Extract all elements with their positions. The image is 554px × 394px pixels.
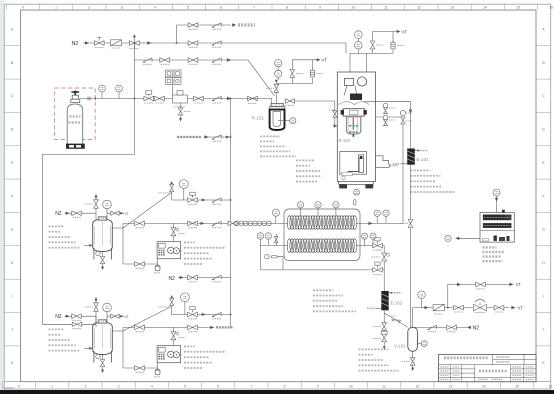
CWR outlet E-102 — [389, 292, 391, 294]
svg-text:R-102: R-102 — [339, 138, 351, 143]
R-102 stirrer motor — [357, 77, 366, 86]
left row letters A-K — [11, 28, 14, 366]
relief valve PSV-103 — [310, 70, 314, 77]
right row letters A-K — [542, 28, 545, 366]
CWS inlet E-102 — [367, 307, 375, 309]
spec text block R-101 — [260, 135, 280, 137]
wire heater signal left — [460, 237, 481, 239]
mass flow controller MFC-301 — [173, 95, 188, 103]
title block company name — [444, 356, 488, 359]
instrument TI row1 outlet b — [383, 210, 389, 216]
valve HV-104 — [285, 100, 335, 102]
node trunk top — [230, 98, 232, 100]
wire tank side nozzle V-401 — [112, 227, 123, 229]
valve KV-103 — [290, 70, 295, 78]
arrow VT R-101 — [317, 58, 321, 61]
valve pair at R-102 inlet — [333, 111, 337, 117]
valve HV-1013 — [382, 323, 387, 330]
check valve CK-301 — [212, 96, 221, 100]
bottom dark strip — [0, 390, 554, 394]
svg-text:N2: N2 — [169, 276, 176, 282]
valve stack right of R-102 b — [384, 119, 388, 125]
relief valve PSV-402 V-501 — [95, 312, 97, 326]
valve HV-1012 — [410, 358, 415, 365]
wire N2 header left x42.3 — [41, 154, 43, 324]
svg-text:13: 13 — [450, 6, 454, 10]
check valve CK-205 — [212, 23, 221, 27]
tank legs V-501 — [94, 351, 112, 363]
wire diagonal to PV-501 — [123, 306, 172, 331]
arrow after AV-508 — [202, 313, 206, 316]
CWS inlet E-101 — [393, 163, 401, 165]
arrow after regulator — [147, 41, 151, 44]
arrow into R-102 — [369, 115, 373, 118]
reactor R-102 vessel — [347, 117, 361, 134]
wire drop x134.5 — [133, 43, 135, 99]
top ruler ticks — [6, 4, 537, 10]
valve HV-101 — [248, 96, 258, 101]
jacket inlet arrow V-501 — [84, 347, 93, 349]
valve HV-108 — [408, 220, 413, 228]
pump P-501 spec text — [184, 345, 195, 347]
valve AV-205b — [188, 275, 198, 280]
node pcv junction — [447, 307, 449, 309]
svg-text:9: 9 — [319, 6, 321, 10]
valve HV-202 on station header — [188, 41, 198, 46]
valve KV-105 — [370, 41, 375, 49]
wire N2 purge y277.5 — [178, 277, 231, 279]
valve HV-502 on N2 header — [72, 322, 82, 326]
svg-text:1: 1 — [55, 6, 57, 10]
heater cabinet — [480, 213, 514, 243]
wire diagonal to R-101 — [248, 60, 275, 96]
bottom ruler numbers 0-16 — [18, 385, 552, 389]
spec text block R-102 — [296, 159, 314, 161]
title block right cells — [513, 366, 522, 368]
thermowell furnace top — [354, 200, 356, 205]
title block gridlines — [439, 354, 537, 381]
wire V-101 bottom drain — [412, 351, 414, 368]
svg-text:14: 14 — [483, 6, 487, 10]
wire R-102 overhead to E-101 — [364, 102, 411, 149]
top ruler numbers 0-16 — [22, 6, 553, 10]
valve HV-405 — [494, 305, 504, 310]
level instrument R-101 — [278, 120, 290, 122]
svg-text:N2: N2 — [72, 41, 79, 47]
wire N2 header top y154.4 — [42, 153, 134, 155]
valve AV-1011 — [373, 268, 383, 273]
instrument TI-313 furnace top — [333, 202, 339, 208]
instrument TI heater left — [445, 235, 451, 241]
spec text block E-101 — [411, 169, 431, 171]
svg-text:VT: VT — [125, 212, 129, 216]
R-102 base and feet — [339, 181, 374, 184]
arrow from BV-6010 — [205, 135, 209, 138]
svg-text:VT: VT — [322, 58, 328, 63]
storage tank V-501 — [93, 322, 113, 354]
instrument PI-A01 — [99, 85, 106, 92]
valve HV-403 V-401 — [72, 211, 81, 216]
valve stack on riser x403 — [401, 117, 405, 124]
arrow to nitrogen seal — [232, 23, 236, 26]
wire N2 header drop x134.4 extension — [133, 99, 135, 155]
valve AV-102 on riser — [274, 84, 279, 92]
label CWS bracket — [390, 165, 398, 167]
instrument TI-312 furnace top — [315, 202, 321, 208]
CWR outlet E-101 — [415, 150, 418, 152]
svg-text:VT: VT — [402, 29, 408, 34]
svg-text:13: 13 — [449, 385, 453, 389]
svg-text:0: 0 — [18, 385, 20, 389]
wire riser x176.5 — [176, 25, 178, 43]
wire tank side nozzle V-501 — [112, 330, 123, 332]
instrument TI row2 outlet b — [370, 233, 376, 239]
instrument below R-102 frame — [354, 189, 360, 195]
bottom ruler band — [4, 381, 551, 383]
condenser E-102 — [381, 291, 388, 310]
union fittings — [88, 97, 95, 101]
gas cylinder body — [67, 104, 83, 147]
svg-text:F: F — [11, 194, 13, 198]
instrument PI-402 — [179, 180, 188, 189]
wire feed header y223.4 — [123, 222, 288, 224]
arrow into trunk — [226, 136, 230, 139]
wire row2 drop x260.4 — [259, 245, 261, 270]
arrow after AV-408 — [202, 198, 206, 201]
svg-text:8: 8 — [286, 6, 288, 10]
arrow N2 inlet — [85, 41, 89, 44]
wire pump suction y264 — [123, 259, 158, 264]
svg-text:VT: VT — [516, 282, 522, 287]
svg-text:11: 11 — [382, 385, 386, 389]
svg-text:N2: N2 — [473, 326, 480, 332]
instrument TI preheater — [272, 209, 279, 216]
valve AV-507 — [135, 366, 145, 371]
wire AV-1011 header y269.9 — [260, 269, 384, 271]
wire pump P-501 suction y368 — [123, 363, 158, 368]
svg-text:I: I — [543, 294, 544, 298]
svg-text:6: 6 — [220, 6, 222, 10]
svg-text:7: 7 — [253, 6, 255, 10]
wire relief header R-101 — [276, 78, 312, 84]
wire VT header R-101 — [292, 60, 317, 70]
instrument TI row1 outlet a — [374, 210, 380, 216]
R-102 outlet bracket — [376, 156, 390, 168]
valve HV-302 drain — [180, 103, 182, 108]
instrument TI-102 top — [355, 31, 363, 39]
svg-text:E-102: E-102 — [391, 301, 403, 306]
arrow feed header — [201, 222, 205, 225]
svg-text:2: 2 — [88, 6, 90, 10]
svg-text:J: J — [11, 328, 13, 332]
tank legs V-401 — [94, 248, 112, 260]
instrument TI row2 outlet a — [362, 233, 368, 239]
wire preheater inlet — [231, 222, 289, 224]
svg-text:VT: VT — [125, 315, 129, 319]
wire tank V-501 suction drop — [122, 327, 124, 368]
vessel R-101 inner — [273, 112, 281, 127]
label butadiene customer-supplied — [70, 115, 81, 117]
svg-text:6: 6 — [217, 385, 219, 389]
tank drain V-501 — [96, 354, 100, 358]
instrument pair row2 inlet — [257, 233, 263, 239]
title block frame — [439, 354, 537, 381]
arrow purge line — [227, 58, 231, 61]
instrument TI-311 furnace top — [297, 202, 303, 208]
wire discharge header y200 — [172, 199, 231, 201]
wire feed header y327.4 — [123, 326, 214, 328]
svg-text:16: 16 — [548, 385, 552, 389]
svg-text:J: J — [543, 328, 545, 332]
small valve row2 inlet — [275, 234, 277, 245]
arrow upper vt — [457, 283, 461, 286]
ignitor circle furnace — [265, 255, 269, 259]
label nitrogen seal gas — [238, 23, 255, 26]
svg-text:4: 4 — [151, 385, 153, 389]
wire PCV row y307.6 — [413, 307, 510, 309]
valve HV-408 — [228, 221, 237, 226]
instrument PI-101 — [275, 70, 282, 77]
wire diagonal to PV-401 — [123, 192, 172, 228]
jacket inlet arrow V-401 — [84, 244, 93, 246]
valve stack right of R-102 a — [384, 107, 388, 113]
relief valve PSV-102 — [391, 42, 395, 49]
arrow VT upper — [509, 283, 513, 287]
svg-text:0: 0 — [22, 6, 24, 10]
svg-text:7: 7 — [250, 385, 252, 389]
node trunk y200 — [230, 199, 232, 201]
wire purge line y60 — [134, 59, 248, 61]
wire N2 station y43 — [83, 42, 346, 44]
reactor coil teal marks — [349, 126, 358, 132]
svg-text:E-101: E-101 — [417, 157, 430, 162]
R-102 control cabinet — [340, 152, 367, 175]
arrow down to E-101 — [409, 110, 412, 114]
svg-text:14: 14 — [482, 385, 486, 389]
separator V-101 — [408, 327, 418, 351]
title block scale row — [478, 378, 488, 380]
wire N2 header bottom feed y324.3 — [42, 323, 96, 325]
bottom ruler ticks — [2, 382, 533, 389]
arrow pcv row — [425, 306, 429, 309]
node trunk y314.5 — [230, 314, 232, 316]
heater coil row 1 — [287, 216, 357, 230]
vessel R-101 jacket — [270, 110, 285, 130]
spec text block V-101 — [359, 348, 389, 350]
valve to VT V-401 — [107, 212, 124, 214]
valve to VT V-501 — [107, 315, 124, 317]
wire discharge header y314.5 — [172, 314, 231, 316]
check valve CK-502 — [212, 135, 221, 139]
svg-text:12: 12 — [417, 6, 421, 10]
pump P-401 spec text — [184, 241, 195, 243]
arrow vent down — [275, 80, 278, 83]
valve KV-508 pump riser — [173, 327, 175, 345]
reactor bottom nozzle — [353, 134, 355, 137]
label TO CK-502 — [216, 326, 233, 328]
svg-text:N2: N2 — [55, 211, 62, 217]
svg-text:F: F — [542, 194, 544, 198]
wire R-102 relief header — [345, 43, 347, 53]
spec text block V-401 — [49, 225, 65, 227]
instrument TI heater — [493, 189, 500, 196]
svg-text:9: 9 — [317, 385, 319, 389]
svg-text:5: 5 — [184, 385, 186, 389]
instrument PI gauge V-401 — [103, 200, 112, 209]
svg-text:16: 16 — [549, 6, 553, 10]
node trunk BV6010 — [230, 136, 232, 138]
wire row2 outlet — [356, 246, 384, 291]
valve PV-501 backpressure — [170, 299, 174, 306]
R-102 skid frame — [337, 72, 375, 181]
node main line x134.5 — [134, 98, 136, 100]
condenser E-101 — [407, 149, 415, 165]
cylinder valve and regulator — [72, 91, 80, 96]
svg-text:R-101: R-101 — [252, 116, 265, 121]
check valve CK-204b — [212, 275, 221, 279]
arrow heater down — [496, 196, 498, 213]
valve AV-01 — [144, 96, 154, 101]
filter F-401 — [155, 264, 159, 266]
arrow VT R-102 — [397, 30, 401, 33]
spec text block V-501 — [49, 328, 65, 330]
wire E-101 down to V-101 — [410, 165, 412, 329]
R-101 head flange — [271, 104, 284, 107]
valve HV-303 — [155, 96, 165, 101]
wire R-101 relief riser — [275, 83, 277, 103]
valve HV-403 V-501 — [72, 314, 81, 319]
instrument TI-101 — [275, 60, 282, 67]
svg-text:5: 5 — [187, 6, 189, 10]
wire E-102 bottom drain — [383, 310, 385, 347]
valve HV-206 — [188, 23, 198, 28]
tank drain V-401 — [96, 251, 100, 255]
wire V-101 top riser — [412, 308, 414, 328]
valve AV-508 — [188, 312, 198, 317]
svg-text:11: 11 — [384, 6, 388, 10]
label FROM BV-6010 — [177, 136, 201, 138]
svg-text:N2: N2 — [55, 314, 62, 320]
title block drawing title — [479, 370, 507, 373]
title block signature cells — [441, 366, 449, 368]
valve AV-104 — [373, 243, 383, 248]
valve AV-402 — [454, 305, 464, 310]
valve HV-1016 — [447, 325, 457, 330]
arrow VT pcv row — [511, 306, 515, 310]
wire N2 inlet V-401 — [65, 212, 97, 214]
wire FROM BV-6010 line y137 — [204, 136, 231, 138]
wire into R-101 head — [248, 99, 272, 104]
svg-text:VT: VT — [518, 305, 524, 310]
wire V-501 tank top riser — [95, 316, 97, 327]
wire tank V-401 suction drop — [122, 223, 124, 264]
svg-text:1: 1 — [51, 385, 53, 389]
furnace enclosure box — [284, 209, 360, 261]
filter F-501 — [155, 368, 159, 370]
valve KV-407 pump riser — [173, 223, 175, 241]
wire R-102 feed from R-101 — [335, 101, 338, 126]
svg-text:12: 12 — [416, 385, 420, 389]
svg-text:G: G — [11, 228, 14, 232]
valve AV-5070 — [188, 325, 198, 330]
control valve PCV-401 — [474, 304, 487, 310]
valve AV-406 — [135, 262, 145, 267]
svg-text:G: G — [542, 228, 545, 232]
left margin strip — [0, 0, 4, 394]
watermark — [5, 387, 15, 389]
valve AV-408 — [188, 198, 198, 203]
wire N2 seal gas header y25 — [177, 24, 232, 26]
node N2 header junction — [176, 42, 178, 44]
svg-text:4: 4 — [154, 6, 156, 10]
red dashed battery-limit box — [55, 88, 96, 140]
valve HV-203 — [188, 58, 198, 63]
arrow N2 backfill — [467, 326, 471, 329]
filter F-402 — [433, 304, 444, 310]
svg-text:15: 15 — [515, 385, 519, 389]
filter F-201 — [111, 40, 122, 46]
shared display instruments 2x2 — [166, 70, 173, 77]
preheater coil loops — [234, 221, 271, 226]
valve AV-205 — [160, 58, 170, 63]
valve AV-505 — [135, 325, 145, 330]
node station junction x134.5 — [134, 42, 136, 44]
svg-text:3: 3 — [118, 385, 120, 389]
valve PV-401 backpressure — [170, 185, 174, 192]
svg-text:V-101: V-101 — [394, 343, 406, 348]
pump P-401 unit — [157, 242, 181, 259]
R-102 head flange assembly — [343, 109, 364, 116]
heater coil row 2 — [287, 239, 357, 253]
level instrument V-101 — [418, 343, 422, 345]
valve HV-401 — [476, 282, 486, 287]
instrument PI V-101 — [418, 291, 426, 299]
valve AV-405 — [135, 221, 145, 226]
check valve on diagonal — [391, 316, 400, 324]
reactor stirrer shaft red — [352, 117, 354, 130]
check valve CK-203 — [212, 58, 221, 62]
svg-text:I: I — [12, 294, 13, 298]
relief valve PSV-402 V-401 — [95, 209, 97, 223]
wire row1 outlet to R-102 riser — [356, 117, 403, 223]
wire diagonal E-102 to V-101 — [384, 313, 408, 327]
wire N2 inlet V-501 — [65, 315, 97, 317]
svg-text:10: 10 — [349, 385, 353, 389]
arrow main feed — [227, 97, 231, 100]
instrument PI-A02 — [116, 85, 123, 92]
wire upper VT row y284.4 — [448, 284, 509, 307]
instrument PI-102 top — [355, 41, 363, 49]
check valve CK-401 — [212, 198, 221, 202]
heater spec text — [483, 246, 497, 248]
spec text block E-102 — [313, 289, 333, 291]
valve KV-1010 — [382, 253, 387, 261]
valve HV-201 — [94, 41, 104, 46]
wire row2 inlet y245.4 — [260, 244, 288, 246]
wire N2 backfill row y327.4 — [413, 326, 467, 328]
instrument PI gauge V-501 — [103, 303, 112, 312]
svg-text:10: 10 — [351, 6, 355, 10]
svg-text:8: 8 — [284, 385, 286, 389]
wire VT header R-102 — [373, 31, 398, 33]
check valve CK-402 — [212, 221, 221, 225]
svg-text:2: 2 — [84, 385, 86, 389]
pump P-501 unit — [157, 346, 181, 363]
title block small cells top — [496, 356, 510, 358]
check valve CK-204 — [143, 58, 152, 62]
arrow TO CK-502 — [210, 326, 214, 329]
svg-text:3: 3 — [121, 6, 123, 10]
